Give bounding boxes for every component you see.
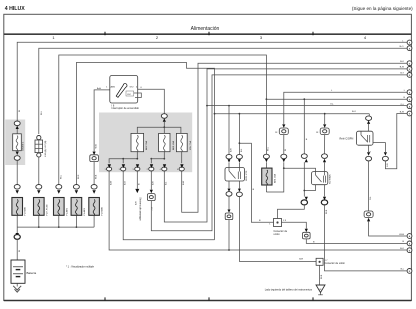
svg-text:Lado izquierdo del tablero de: Lado izquierdo del tablero de instrument… [265,289,313,292]
wire ST2 run [138,89,164,114]
svg-text:(Sigue en la página siguiente): (Sigue en la página siguiente) [352,6,413,11]
inline connector on D1 column [364,211,373,218]
wire relay A pin2 output to junction connector J7 [239,197,317,262]
wire color labels mid columns [230,90,371,190]
ruler tick top 2 [208,32,210,35]
wire D1 LR-B to connector circle D1 [369,221,407,236]
fusible links FL MAIN / H-FUSE / AM2 / AM1 / MAIN [12,198,104,216]
wire drop fuse2 [163,127,165,133]
wire C3 to connector circle C3 [207,105,407,107]
svg-text:Relé C/OPN: Relé C/OPN [340,138,354,141]
inline connector 1F on relay B coil column [324,114,326,125]
svg-text:B-O: B-O [400,61,404,63]
connector block H16/H17 [35,136,47,185]
bold connector oval relay B output L [301,200,307,205]
right edge circles group D [399,234,412,253]
gray box engine room J/B left [5,120,25,166]
fusible link DIODE in engine J/B [13,134,25,151]
right edge circle E [401,269,412,274]
right edge circles group B [400,61,412,78]
relay A arrows [228,159,231,162]
svg-text:Conector de unión: Conector de unión [325,262,346,265]
svg-text:S-D: S-D [387,163,389,167]
ground triangle [316,285,325,295]
wire drop mid + junction dots [122,159,124,164]
svg-text:LR-B: LR-B [399,234,405,236]
ruler tick top 3 [312,32,314,35]
bold connector oval relay B output R [321,200,327,205]
gray box main fuse block center [99,113,192,173]
wire color labels under fuse panel [110,180,185,185]
wire starter column [136,171,138,189]
inline connector 1F on C1 column [282,124,285,127]
wire C4 B-O feed to relay C/OPN [215,113,370,115]
svg-text:B-R: B-R [136,201,138,205]
junction connector JB2 [316,258,345,265]
battery Bateria [11,260,37,283]
wire D2 to connector circle D2 [306,239,407,244]
fusible link AM1 40A (center) [263,154,269,159]
relay B box IG2 MAIN [312,162,332,185]
svg-text:A-A: A-A [97,87,101,90]
svg-text:FL AM1: FL AM1 [83,207,86,215]
svg-text:B-R: B-R [230,148,232,152]
svg-text:AM2: AM2 [111,86,116,89]
wire battery column [16,160,18,184]
wire C2 to connector circle C2 [266,98,406,100]
svg-text:Alimentación: Alimentación [191,26,220,32]
connector oval battery column top [14,121,20,126]
wire fuse feed bus [137,127,181,133]
header thick rule [4,33,412,35]
wire W2 horizontal [39,48,407,134]
arrows below fuse panel ovals [108,164,184,168]
wire relay A pin1 feed from C3 [228,106,230,155]
junction connector JB1 [269,219,287,236]
wire fuse bus top [163,122,165,127]
relay A box 1B M-HTR [225,168,248,182]
svg-text:Sistema de arranque: Sistema de arranque [139,197,142,221]
connector oval relay C/OPN feed [368,114,370,116]
ruler tick bottom 2 [208,297,210,300]
right edge circles group A [400,40,412,51]
wire W5 ignition feed [94,90,111,152]
fuse panel bottom ovals [107,167,185,171]
ruler tick bottom 1 [104,297,106,300]
wire relay A output down [228,220,230,250]
connector ovals above fusible link row [14,185,97,190]
right edge circles group C [400,90,412,116]
relay A lower pins [228,181,230,189]
svg-text:FL MAIN: FL MAIN [101,207,104,216]
oval ST2 into fuse box [161,114,167,119]
wire W4 from FL AM1 down to U-turn bus [76,63,214,240]
starter feed arrow [135,189,139,193]
svg-text:W-B: W-B [96,144,98,149]
ruler tick top 1 [104,32,106,35]
svg-text:B-O: B-O [352,111,356,113]
relay B bottom pins [324,185,326,197]
wire O-L relay C/OPN output to D1 [368,161,370,211]
svg-text:* 1 : Visualizador múltiple: * 1 : Visualizador múltiple [66,266,95,269]
svg-text:unión: unión [274,233,281,236]
inline connector W-B column [90,144,99,162]
fuse1 lower bus [109,152,137,164]
svg-text:FL MAIN: FL MAIN [24,207,27,216]
wire W1 horizontal [17,42,407,120]
wire B2 from fuse AM1 to connector circle B2 [164,69,406,222]
svg-text:4 HILUX: 4 HILUX [5,6,25,12]
svg-text:Interruptor de encendido: Interruptor de encendido [112,107,140,110]
fuse AM1 40A [159,133,175,151]
svg-text:DIODE 1: DIODE 1 [23,141,25,151]
svg-text:FL AM2: FL AM2 [65,207,68,215]
svg-text:B-Y: B-Y [400,73,404,75]
svg-text:B-R: B-R [299,259,303,261]
ruler tick bottom 3 [312,297,314,300]
arrow below ST2 oval [163,118,166,122]
relay B left col outside [303,162,305,196]
svg-text:B-O: B-O [124,181,126,185]
bottom bus of fusible links [17,215,94,228]
svg-text:B-O: B-O [400,46,404,48]
svg-text:IGN 7.5A: IGN 7.5A [189,140,192,150]
wire 1F to relay B coil [324,135,326,154]
wire relay B coil feed from C2 [303,99,305,154]
wire C1 L to connector circle C1 [284,92,407,124]
wire color labels left columns [19,109,98,179]
svg-text:IG2 MAIN: IG2 MAIN [329,174,332,184]
inline connector below relay A [228,196,230,209]
fuse3 lower wire [181,152,183,164]
fuse IGN 7.5A [176,133,192,151]
wire D3 long bus from FL column to connector circle D3 [109,171,407,250]
junction fuse bus [163,126,165,128]
svg-text:W-B: W-B [96,174,98,179]
wire B-W riser to connector circle C4 [385,114,406,169]
relay C/OPN bottom pins [368,145,370,152]
svg-text:B-R: B-R [153,181,155,185]
svg-text:H16 (A), H17 (B): H16 (A), H17 (B) [44,140,47,157]
wire to junction connector J4 [150,171,152,190]
ignition switch I6 [97,76,143,111]
svg-text:W-B: W-B [326,209,328,214]
arrow below fusible link [16,152,19,156]
relay B connector ovals [301,154,307,159]
wire B1 from fuse IGN to connector circle B1 [182,63,407,212]
wire W3 from FL AM2 to fusible link AM1 column [59,55,267,184]
inline connector on D2 column [305,229,308,232]
fuse2 lower bus [151,152,164,164]
junction W3 / C2 tee [266,98,268,100]
relay A (1B M-HTR) connector ovals [226,154,232,159]
svg-text:W-B: W-B [321,274,323,279]
fuse AM2 30A [131,133,148,151]
pin number labels fuse panel [104,169,179,171]
svg-text:AM1 40A: AM1 40A [172,140,175,150]
wire relay A pin2 feed from C4 + branch to JB1 [238,114,240,155]
relay C/OPN box [340,131,374,145]
svg-text:1B M-HTR: 1B M-HTR [246,170,248,181]
wire B3 from J4 to connector circle B3 [151,75,406,231]
battery ground [13,283,21,292]
svg-text:FL H-FUSE: FL H-FUSE [46,204,48,216]
JB2 ground [319,265,321,284]
oval below fusible link [14,156,20,161]
wire from bold oval L to JB1 [278,205,305,219]
svg-text:B-O: B-O [400,248,404,250]
arrows into fusible links [16,190,96,194]
svg-text:Batería: Batería [27,271,37,275]
wire W5 lower [93,162,95,185]
wire U-turn fuse AM2 column [123,171,214,240]
wire 1F connector down to relay B [283,135,285,155]
wire JB1 right pin to inline connector [282,222,307,228]
svg-text:AM2 30A: AM2 30A [145,140,148,150]
arrow into fusible link [16,126,19,129]
svg-text:W-R: W-R [78,174,80,179]
wire E B-L to connector circle E [325,205,407,271]
connector oval battery feed [16,227,18,233]
junction connector J4 [147,190,155,211]
svg-text:AM1 40A: AM1 40A [273,173,276,183]
